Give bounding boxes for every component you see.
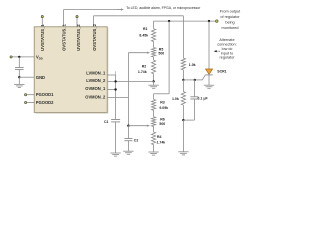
svg-text:1.74k: 1.74k	[138, 70, 147, 74]
svg-text:R6: R6	[160, 117, 165, 121]
svg-text:LVMON_2: LVMON_2	[86, 78, 106, 83]
svg-text:OVSTATUS_2: OVSTATUS_2	[92, 23, 97, 50]
svg-text:OVMON_2: OVMON_2	[85, 94, 106, 99]
svg-text:C2: C2	[134, 139, 139, 143]
svg-text:PGOOD2: PGOOD2	[36, 100, 54, 105]
svg-text:OVMON_1: OVMON_1	[85, 86, 106, 91]
svg-text:regulator: regulator	[220, 56, 236, 60]
svg-text:1.0k: 1.0k	[189, 63, 196, 67]
svg-text:500: 500	[158, 52, 164, 56]
svg-text:GND: GND	[36, 75, 45, 80]
svg-text:UVSTATUS_2: UVSTATUS_2	[76, 24, 81, 51]
svg-text:9.09k: 9.09k	[159, 106, 168, 110]
svg-text:OVSTATUS_1: OVSTATUS_1	[62, 23, 67, 50]
svg-text:R4: R4	[157, 135, 162, 139]
svg-text:DD: DD	[39, 56, 43, 60]
svg-text:To LED, audible alarm, FPGA, o: To LED, audible alarm, FPGA, or micropro…	[126, 6, 201, 10]
svg-text:Alternate: Alternate	[219, 38, 234, 42]
svg-text:0.1 μF: 0.1 μF	[198, 96, 209, 100]
svg-text:C1: C1	[104, 120, 109, 124]
svg-text:input to: input to	[221, 51, 233, 55]
svg-text:1.0k: 1.0k	[172, 97, 179, 101]
svg-text:From output: From output	[220, 10, 241, 14]
svg-text:of regulator: of regulator	[220, 15, 240, 19]
svg-text:500: 500	[159, 122, 165, 126]
svg-text:being: being	[225, 20, 234, 24]
svg-text:8.45k: 8.45k	[139, 33, 148, 37]
svg-text:low dc: low dc	[222, 47, 233, 51]
svg-text:connection:: connection:	[217, 42, 236, 46]
svg-text:PGOOD1: PGOOD1	[36, 92, 54, 97]
svg-text:monitored: monitored	[222, 26, 239, 30]
svg-text:1.74k: 1.74k	[157, 140, 166, 144]
svg-text:LVMON_1: LVMON_1	[86, 71, 106, 76]
svg-text:UVSTATUS_1: UVSTATUS_1	[40, 24, 45, 51]
svg-text:R2: R2	[142, 65, 147, 69]
svg-text:R5: R5	[159, 47, 164, 51]
svg-text:R1: R1	[143, 27, 148, 31]
svg-text:R3: R3	[160, 101, 165, 105]
svg-text:SCR1: SCR1	[217, 69, 226, 73]
